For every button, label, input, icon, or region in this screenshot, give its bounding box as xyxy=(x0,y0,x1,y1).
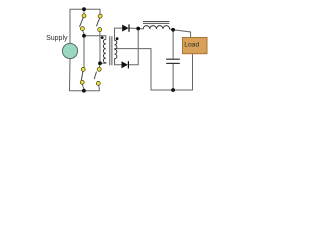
transformer T1 primary winding xyxy=(103,39,105,63)
wire secondary bottom to diode D2 xyxy=(115,59,122,65)
wire center tap return xyxy=(115,49,152,90)
wire node OUT to inductor xyxy=(138,28,143,30)
wire load bottom xyxy=(192,54,194,90)
junction dot cap bottom rail xyxy=(171,88,175,92)
capacitor C1 xyxy=(166,59,180,63)
junction dot node OUT xyxy=(136,27,140,31)
wire left leg bottom to rail xyxy=(82,84,84,91)
switch S2 contacts xyxy=(98,14,103,32)
wire cap riser top xyxy=(172,30,174,59)
supply source circle xyxy=(62,43,77,58)
switch S4 lower-right: lever xyxy=(94,72,96,79)
wire right leg to upper switch xyxy=(99,9,101,14)
junction dot top rail / left leg xyxy=(82,7,86,11)
junction dot cap top node xyxy=(171,28,175,32)
wire right leg below node B to lower switch xyxy=(98,63,101,67)
wire left leg middle xyxy=(83,36,85,68)
wire right leg bottom to rail corner xyxy=(97,85,100,91)
switch S1 upper-left: lever xyxy=(80,17,84,26)
svg-text:Load: Load xyxy=(184,41,199,48)
wire diode D1 cathode to node OUT xyxy=(130,27,139,29)
diode D2 xyxy=(122,61,129,68)
junction dot node B xyxy=(98,61,102,65)
inductor L1 core xyxy=(143,22,169,24)
wire bottom-left rail xyxy=(70,90,100,92)
wire cap riser bottom xyxy=(172,63,174,90)
load box xyxy=(183,38,208,54)
wire top rail xyxy=(70,8,100,10)
transformer T1 secondary winding xyxy=(115,40,117,59)
diode D1 xyxy=(122,24,129,31)
wire primary bottom to node B xyxy=(100,62,106,65)
switch S4 contacts xyxy=(96,67,101,85)
switch S3 contacts xyxy=(80,67,85,84)
transformer T1 secondary polarity dot xyxy=(116,37,119,40)
wire right leg middle (crosses primary-top feed) xyxy=(99,31,101,63)
switch S3 lower-left: lever xyxy=(81,71,83,80)
switch S1 contacts xyxy=(80,14,86,31)
junction dot node A xyxy=(82,34,86,38)
wire diode D2 riser to node OUT xyxy=(129,29,138,65)
wire node A to primary top xyxy=(84,36,106,39)
transformer T1 primary polarity dot xyxy=(101,36,104,39)
svg-text:Supply: Supply xyxy=(46,35,68,42)
wire left leg upper-switch to node A xyxy=(83,31,84,36)
transformer T1 core xyxy=(110,36,112,65)
wire left wall upper xyxy=(69,9,71,44)
wire bottom-right rail xyxy=(151,89,193,91)
wire left leg stub top xyxy=(83,9,85,14)
junction dot bottom rail / left leg xyxy=(82,89,86,93)
wire left wall lower xyxy=(69,59,72,91)
wire secondary top to diode D1 xyxy=(115,28,123,40)
wire inductor to cap node to load xyxy=(170,29,191,38)
inductor L1 winding xyxy=(143,26,169,29)
switch S2 upper-right: lever xyxy=(96,18,99,27)
